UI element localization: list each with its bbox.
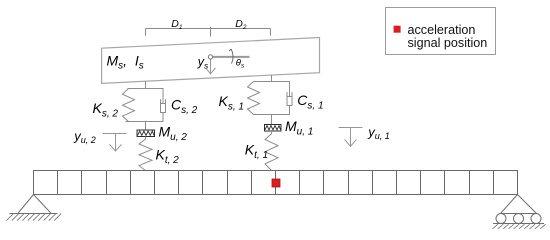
svg-text:yu, 2: yu, 2 bbox=[73, 129, 96, 146]
svg-text:D1: D1 bbox=[171, 18, 183, 31]
displacement arrow yu,2 bbox=[103, 134, 127, 152]
acceleration sensor red square bbox=[272, 179, 280, 187]
dimension line D bbox=[146, 27, 271, 37]
left suspension bottom bracket bbox=[126, 121, 164, 123]
svg-text:Mu, 2: Mu, 2 bbox=[159, 123, 188, 143]
right suspension bottom bracket bbox=[254, 114, 291, 116]
left suspension top bracket bbox=[128, 88, 164, 90]
svg-text:Ks, 2: Ks, 2 bbox=[93, 100, 119, 120]
tire spring Kt,1 bbox=[265, 131, 278, 171]
mass Mu,1 bbox=[265, 125, 282, 132]
svg-text:Cs, 1: Cs, 1 bbox=[297, 92, 323, 112]
wire bracket to mass Mu,1 bbox=[271, 115, 273, 125]
svg-text:Ks, 1: Ks, 1 bbox=[219, 93, 244, 113]
legend box bbox=[386, 8, 496, 55]
bridge element divisions bbox=[58, 171, 494, 195]
damper Cs,1 bbox=[287, 82, 292, 115]
spring Ks,1 bbox=[248, 82, 260, 115]
svg-text:signal position: signal position bbox=[408, 36, 488, 50]
pin support left bbox=[10, 195, 58, 214]
roller support right bbox=[493, 195, 544, 224]
displacement arrow yu,1 bbox=[339, 128, 363, 147]
svg-text:Kt, 1: Kt, 1 bbox=[245, 141, 268, 161]
right suspension top bracket bbox=[254, 81, 290, 83]
pivot node bbox=[208, 55, 212, 59]
tire spring Kt,2 bbox=[139, 137, 152, 171]
svg-text:D2: D2 bbox=[235, 18, 247, 31]
svg-text:yu, 1: yu, 1 bbox=[367, 125, 390, 142]
pin support hatching bbox=[7, 214, 62, 221]
rotation axis line bbox=[213, 56, 250, 58]
vehicle body Ms,Is bbox=[102, 38, 320, 84]
wire bracket to mass Mu,2 bbox=[145, 122, 147, 131]
spring Ks,2 bbox=[123, 89, 135, 122]
svg-text:Kt, 2: Kt, 2 bbox=[156, 146, 180, 166]
damper Cs,2 bbox=[161, 89, 166, 122]
displacement arrow ys bbox=[206, 59, 216, 74]
legend red square bbox=[394, 26, 401, 33]
wire body to left suspension bbox=[145, 81, 147, 89]
mass Mu,2 bbox=[137, 130, 155, 137]
svg-text:Mu, 1: Mu, 1 bbox=[285, 118, 313, 138]
bridge beam bbox=[34, 171, 518, 195]
rotation arc thetas bbox=[231, 49, 233, 63]
svg-text:Cs, 2: Cs, 2 bbox=[171, 96, 198, 116]
wire body to right suspension bbox=[271, 75, 273, 81]
roller support hatching bbox=[493, 224, 546, 229]
